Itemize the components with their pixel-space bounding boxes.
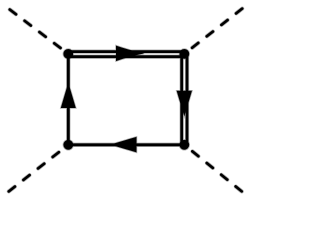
halo: dashed scalar line bottom-right external (184, 145, 242, 192)
halo: vertex dot bottom-left (63, 139, 74, 150)
halo: vertex dot top-right (179, 48, 190, 59)
arrow up on left edge (61, 83, 76, 108)
halo: arrow right on top edge (116, 46, 144, 62)
dashed scalar line bottom-right external (184, 145, 242, 192)
double fermion line right edge (180, 54, 183, 145)
halo: double fermion line top edge (68, 49, 184, 53)
halo: fermion line left edge (66, 54, 70, 145)
halo: vertex dot top-left (63, 48, 74, 59)
halo: arrow up on left edge (61, 83, 76, 108)
halo: vertex dot bottom-right (179, 139, 190, 150)
vertex dot bottom-left (63, 140, 73, 150)
halo: dashed scalar line top-right external (184, 8, 243, 54)
fermion line left edge (67, 54, 70, 145)
halo: dashed scalar line top-left external (9, 9, 68, 54)
antialias halo layer (8, 8, 243, 192)
dashed scalar line top-left external (9, 9, 68, 54)
arrow down on right edge (177, 91, 192, 117)
dashed scalar line top-right external (184, 8, 243, 54)
dashed scalar line bottom-left external (8, 145, 68, 192)
vertex dot top-right (179, 49, 189, 59)
double fermion line top edge (68, 50, 184, 53)
arrow left on bottom edge (110, 137, 136, 153)
halo: dashed scalar line bottom-left external (8, 145, 68, 192)
fermion line bottom edge (68, 143, 184, 146)
halo: double fermion line right edge (180, 54, 184, 145)
vertex dot bottom-right (179, 140, 189, 150)
ink layer (8, 8, 243, 192)
halo: arrow down on right edge (177, 91, 192, 117)
vertex dot top-left (63, 49, 73, 59)
arrow right on top edge (116, 46, 144, 62)
halo: arrow left on bottom edge (110, 137, 136, 153)
halo: fermion line bottom edge (68, 143, 184, 147)
